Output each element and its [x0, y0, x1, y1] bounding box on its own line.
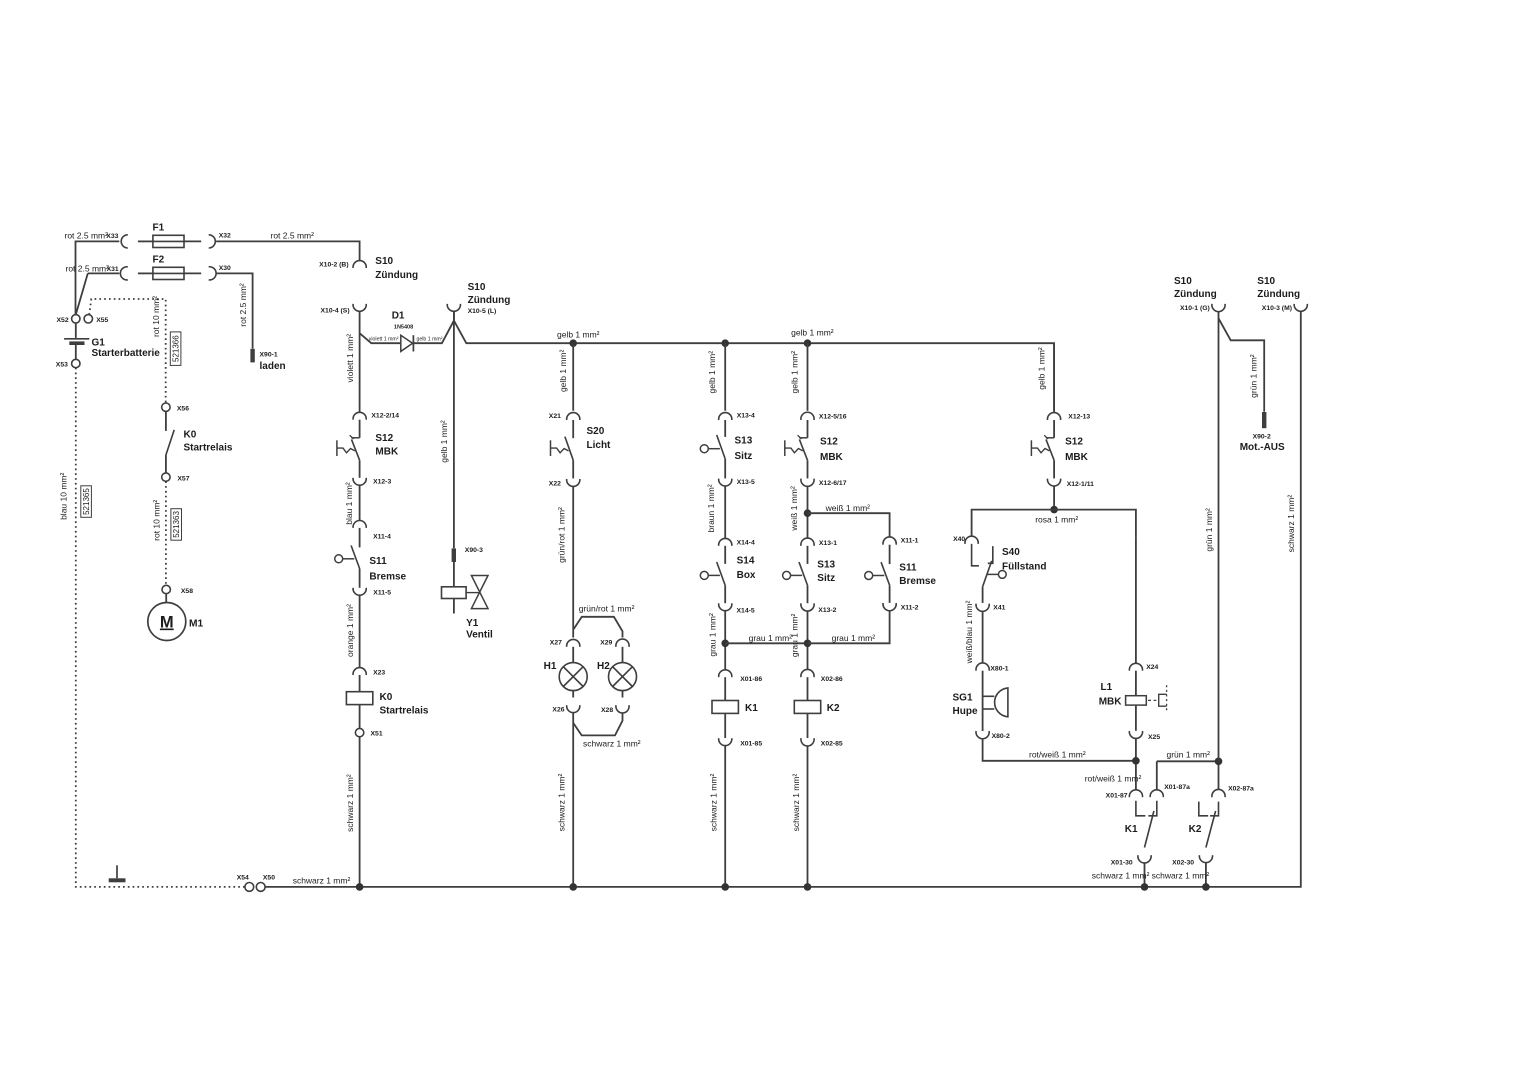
- svg-text:Y1: Y1: [466, 618, 479, 629]
- svg-text:Bremse: Bremse: [899, 576, 936, 587]
- svg-text:X11-5: X11-5: [373, 590, 391, 597]
- svg-text:X23: X23: [373, 670, 385, 677]
- svg-text:K2: K2: [1189, 824, 1202, 835]
- connector X31: [120, 267, 127, 280]
- connector X33: [121, 235, 128, 248]
- junction junction grau column F: [721, 640, 729, 648]
- switch S11 Bremse (column C): [335, 546, 360, 569]
- connector X01-87: [1129, 790, 1142, 797]
- wire to X27: [572, 630, 574, 638]
- svg-text:X10-4 (S): X10-4 (S): [321, 308, 350, 315]
- svg-text:schwarz 1 mm²: schwarz 1 mm²: [1092, 871, 1150, 881]
- svg-text:X25: X25: [1148, 734, 1160, 741]
- svg-text:1N5408: 1N5408: [394, 325, 413, 331]
- svg-text:X27: X27: [550, 640, 562, 647]
- wire K2 coil to X02-85: [807, 713, 809, 738]
- junction junction gelb bus / column F: [721, 339, 729, 347]
- connector X10-1 (G): [1212, 304, 1225, 312]
- junction junction column C / bus: [356, 883, 364, 891]
- wire rot 2.5mm2 from X52 up to F1 row: [76, 241, 120, 314]
- svg-text:X13-1: X13-1: [819, 540, 837, 547]
- svg-text:X13-5: X13-5: [737, 479, 755, 486]
- junction junction gelb bus / column G: [804, 339, 812, 347]
- svg-text:X80-2: X80-2: [992, 733, 1010, 740]
- connector X10-3 (M): [1294, 304, 1307, 311]
- svg-text:Starterbatterie: Starterbatterie: [92, 348, 161, 359]
- wire X12-2/14 to S12: [359, 420, 361, 438]
- wire number 521365: [81, 486, 92, 518]
- wire S20 to X22: [572, 460, 574, 478]
- svg-text:rot 10 mm²: rot 10 mm²: [151, 500, 161, 541]
- svg-text:Licht: Licht: [587, 440, 612, 451]
- svg-text:X12-3: X12-3: [373, 478, 391, 485]
- svg-text:Mot.-AUS: Mot.-AUS: [1240, 442, 1285, 453]
- wire X13-4 to S13: [724, 420, 726, 437]
- terminal X52: [72, 315, 80, 323]
- wire schwarz return X28 to column E: [573, 713, 622, 736]
- connector X30: [209, 267, 216, 280]
- connector X11-4: [353, 520, 366, 527]
- svg-text:K2: K2: [827, 703, 840, 714]
- fuse F1: [153, 235, 184, 247]
- svg-text:MBK: MBK: [375, 446, 399, 457]
- svg-text:X11-2: X11-2: [901, 605, 919, 612]
- connector X80-1: [976, 663, 989, 671]
- svg-text:gelb 1 mm²: gelb 1 mm²: [790, 351, 800, 394]
- wire X01-86 to K1 coil: [724, 677, 726, 700]
- wire gelb from D1 to S10 X10-5(L): [413, 312, 454, 344]
- connector X13-5: [719, 479, 732, 486]
- wire rot 2.5mm2 X30 to X90-1 laden: [216, 273, 253, 348]
- battery G1: [64, 339, 89, 343]
- svg-text:X58: X58: [181, 588, 193, 595]
- wire S40 to X41: [982, 587, 984, 603]
- connector X01-85: [719, 738, 732, 745]
- switch S12 MBK (column G): [785, 435, 808, 460]
- svg-text:X14-5: X14-5: [737, 608, 755, 615]
- wire gruen branch to X90-2 Mot.-AUS: [1219, 318, 1265, 412]
- svg-text:X33: X33: [106, 233, 118, 240]
- wire X56 to K0 switch: [165, 411, 167, 431]
- svg-text:X41: X41: [993, 605, 1005, 612]
- wire blau 1mm2 X12-3 to X11-4: [359, 485, 361, 520]
- svg-text:X12-13: X12-13: [1068, 413, 1090, 420]
- wire gelb 1mm2 to X90-3: [453, 311, 455, 548]
- connector X12-1/11: [1047, 479, 1060, 486]
- svg-text:gelb 1 mm²: gelb 1 mm²: [1036, 347, 1046, 390]
- svg-text:S10: S10: [468, 282, 486, 293]
- junction junction grau column G: [804, 640, 812, 648]
- switch S13 Sitz (column F): [700, 435, 725, 459]
- wire X58 to motor M1: [165, 594, 167, 603]
- svg-text:S40: S40: [1002, 547, 1020, 558]
- connector X14-5: [719, 603, 732, 610]
- svg-text:Zündung: Zündung: [1174, 289, 1217, 300]
- svg-text:Zündung: Zündung: [468, 295, 511, 306]
- svg-text:X55: X55: [96, 317, 108, 324]
- svg-text:schwarz 1 mm²: schwarz 1 mm²: [345, 774, 355, 832]
- svg-text:MBK: MBK: [1099, 696, 1123, 707]
- svg-text:K0: K0: [380, 692, 393, 703]
- svg-text:X50: X50: [263, 875, 275, 882]
- junction junction K1 / bus: [1141, 883, 1149, 891]
- svg-text:X32: X32: [219, 233, 231, 240]
- svg-text:grün/rot 1 mm²: grün/rot 1 mm²: [579, 603, 635, 613]
- svg-text:X80-1: X80-1: [990, 666, 1008, 673]
- wire X13-1 to S13: [807, 546, 809, 564]
- svg-text:grün 1 mm²: grün 1 mm²: [1204, 508, 1214, 552]
- wire schwarz 1mm2 K1 to bus: [724, 746, 726, 887]
- wire gelb 1mm2 bus to X21: [572, 343, 574, 411]
- terminal X50: [256, 883, 265, 892]
- terminal X55: [84, 315, 92, 323]
- svg-text:blau 1 mm²: blau 1 mm²: [344, 482, 354, 525]
- switch S11 Bremse (column H): [865, 562, 890, 585]
- junction junction rot/weiss: [1132, 757, 1140, 765]
- svg-text:laden: laden: [260, 361, 286, 372]
- wire X12-13 to S12: [1053, 420, 1055, 438]
- svg-text:K1: K1: [1125, 824, 1138, 835]
- svg-text:gelb 1 mm²: gelb 1 mm²: [558, 349, 568, 392]
- wire F2 right lead: [184, 272, 201, 274]
- svg-text:schwarz 1 mm²: schwarz 1 mm²: [293, 875, 351, 885]
- connector X10-2 (B): [353, 261, 366, 268]
- wire L1 to X25: [1135, 705, 1137, 731]
- svg-text:S20: S20: [587, 426, 605, 437]
- switch S20 Licht: [551, 437, 574, 461]
- svg-text:orange 1 mm²: orange 1 mm²: [345, 604, 355, 657]
- svg-text:X21: X21: [549, 413, 561, 420]
- lamp H1: [559, 663, 587, 691]
- wire gelb 1mm2 bus to X13-4: [724, 343, 726, 411]
- connector X27: [567, 639, 580, 646]
- wire weiss 1mm2 G to H: [808, 513, 890, 537]
- svg-text:schwarz 1 mm²: schwarz 1 mm²: [556, 774, 566, 832]
- wire K1 coil to X01-85: [724, 713, 726, 738]
- junction junction weiss column G: [804, 509, 812, 517]
- relay contact K1: [1136, 801, 1157, 848]
- connector X01-86: [719, 670, 732, 677]
- svg-text:X02-87a: X02-87a: [1228, 786, 1254, 793]
- svg-text:X02-85: X02-85: [821, 740, 843, 747]
- wire X11-1 to S11: [889, 545, 891, 564]
- svg-text:grau 1 mm²: grau 1 mm²: [708, 613, 718, 657]
- wire lamp H2 to X28: [622, 691, 624, 698]
- wire gruen junction to X02-87a: [1218, 761, 1220, 790]
- connector X23: [353, 668, 366, 675]
- connector X24: [1129, 663, 1142, 670]
- svg-text:521366: 521366: [171, 335, 180, 362]
- wire X90-3 to Y1: [453, 562, 455, 587]
- terminal X56: [162, 403, 170, 411]
- wire grau 1mm2 X13-2 to junction: [807, 611, 809, 670]
- horn SG1 Hupe: [983, 688, 1008, 717]
- svg-text:grün/rot 1 mm²: grün/rot 1 mm²: [556, 507, 566, 563]
- svg-text:X22: X22: [549, 480, 561, 487]
- connector X11-5: [353, 588, 366, 595]
- svg-text:X11-1: X11-1: [901, 538, 919, 545]
- svg-text:S12: S12: [820, 437, 838, 448]
- wire weiss/blau 1mm2 X41 to X80-1: [982, 611, 984, 663]
- wire gruen to X01-87a: [1156, 761, 1158, 790]
- diode D1 1N5408: [401, 335, 414, 351]
- svg-text:X11-4: X11-4: [373, 534, 391, 541]
- svg-text:X12-2/14: X12-2/14: [371, 412, 399, 419]
- wire violett from X10-4(S) down: [359, 311, 361, 412]
- wire X11-4 to S11: [359, 528, 361, 548]
- wire S13 to X13-2: [807, 585, 809, 603]
- wire X52 to battery: [75, 323, 77, 338]
- svg-text:X30: X30: [219, 265, 231, 272]
- connector X11-2: [883, 603, 896, 611]
- junction junction column E / bus: [569, 883, 577, 891]
- wire gruen/rot 1mm2 X22 down: [572, 486, 574, 629]
- connector X02-87a: [1212, 789, 1225, 797]
- svg-text:X01-85: X01-85: [740, 740, 762, 747]
- svg-text:Zündung: Zündung: [1257, 289, 1300, 300]
- svg-text:braun 1 mm²: braun 1 mm²: [706, 484, 716, 532]
- wire orange 1mm2 X11-5 to X23: [359, 595, 361, 667]
- wire grau 1mm2 X11-2 to junction G: [808, 610, 890, 643]
- connector X12-6/17: [801, 479, 814, 487]
- svg-text:rot 2.5 mm²: rot 2.5 mm²: [66, 263, 110, 273]
- wire X27 to lamp H1: [572, 647, 574, 663]
- terminal X54: [245, 883, 254, 892]
- terminal X58: [162, 585, 170, 593]
- svg-text:K0: K0: [184, 429, 197, 440]
- connector X01-30: [1138, 855, 1151, 863]
- svg-text:D1: D1: [392, 310, 405, 321]
- junction junction K2 / bus: [1202, 883, 1210, 891]
- svg-text:X02-30: X02-30: [1172, 859, 1194, 866]
- wire F2 left lead: [138, 272, 154, 274]
- wire rot 2.5mm2 from X52 to F2 row: [76, 273, 119, 314]
- wire rot 10mm2 dashed X57 to X58: [165, 481, 167, 585]
- connector X25: [1129, 731, 1142, 738]
- fuse F2: [153, 267, 184, 279]
- terminal X57: [162, 473, 170, 481]
- connector X12-5/16: [801, 412, 814, 420]
- svg-text:S13: S13: [817, 559, 835, 570]
- svg-text:violett 1 mm²: violett 1 mm²: [369, 336, 399, 342]
- connector X40: [965, 536, 978, 544]
- terminal bar X90-3: [452, 548, 456, 562]
- wire battery to X53: [75, 345, 77, 359]
- svg-text:MBK: MBK: [820, 452, 844, 463]
- wire gruen 1mm2 horizontal: [1157, 760, 1219, 762]
- svg-text:rot 10 mm²: rot 10 mm²: [151, 296, 161, 337]
- connector X21: [567, 413, 580, 420]
- wire X02-86 to K2 coil: [807, 677, 809, 700]
- svg-text:grau 1 mm²: grau 1 mm²: [749, 633, 793, 643]
- connector X13-1: [801, 538, 814, 546]
- svg-text:H2: H2: [597, 661, 610, 672]
- connector X29: [616, 639, 629, 647]
- svg-text:Startrelais: Startrelais: [380, 706, 429, 717]
- connector X01-87a: [1150, 790, 1163, 797]
- svg-text:X10-5 (L): X10-5 (L): [468, 308, 497, 315]
- svg-text:X12-6/17: X12-6/17: [819, 480, 847, 487]
- svg-text:Sitz: Sitz: [735, 451, 753, 462]
- svg-text:S12: S12: [1065, 437, 1083, 448]
- wire S14 to X14-5: [724, 585, 726, 603]
- svg-text:X01-87: X01-87: [1106, 793, 1128, 800]
- connector X28: [616, 705, 629, 713]
- connector X02-30: [1199, 855, 1212, 862]
- svg-text:schwarz 1 mm²: schwarz 1 mm²: [1152, 871, 1210, 881]
- switch S14 Box: [700, 562, 725, 585]
- svg-text:Box: Box: [737, 570, 756, 581]
- svg-text:Füllstand: Füllstand: [1002, 562, 1046, 573]
- switch S12 MBK (column I): [1031, 435, 1054, 460]
- svg-text:X26: X26: [552, 706, 564, 713]
- svg-text:S11: S11: [899, 562, 917, 573]
- svg-text:X10-2 (B): X10-2 (B): [319, 262, 348, 269]
- svg-text:X54: X54: [237, 875, 249, 882]
- svg-text:521365: 521365: [82, 488, 91, 515]
- wire schwarz 1mm2 X26 to bus: [572, 713, 574, 887]
- junction junction rosa: [1050, 506, 1058, 514]
- svg-text:grau 1 mm²: grau 1 mm²: [789, 614, 799, 658]
- terminal bar X90-1: [250, 349, 254, 363]
- junction junction column F / bus: [721, 883, 729, 891]
- svg-text:X57: X57: [177, 475, 189, 482]
- connector X13-4: [719, 413, 732, 420]
- svg-text:X40: X40: [953, 536, 965, 543]
- svg-text:X51: X51: [371, 731, 383, 738]
- svg-text:X90-1: X90-1: [260, 352, 278, 359]
- svg-text:X01-30: X01-30: [1111, 859, 1133, 866]
- wire blau 10mm2 dotted X53 down and to X54: [76, 368, 245, 887]
- wire braun 1mm2 X13-5 to X14-4: [724, 486, 726, 538]
- svg-text:S10: S10: [1174, 276, 1192, 287]
- svg-text:rot 2.5 mm²: rot 2.5 mm²: [238, 283, 248, 327]
- terminal X53: [72, 359, 80, 367]
- svg-text:S14: S14: [737, 555, 755, 566]
- svg-text:schwarz 1 mm²: schwarz 1 mm²: [791, 774, 801, 832]
- svg-text:Zündung: Zündung: [375, 270, 418, 281]
- svg-text:521363: 521363: [172, 511, 181, 538]
- svg-text:rot/weiß 1 mm²: rot/weiß 1 mm²: [1085, 774, 1142, 784]
- wire gelb 1mm2 bus corner to X12-13: [1053, 343, 1055, 411]
- wire S12 to X12-6/17: [807, 460, 809, 478]
- terminal X51: [355, 728, 363, 736]
- connector X10-4 (S): [353, 304, 366, 311]
- svg-text:F2: F2: [153, 255, 165, 266]
- wire branch to diode D1: [360, 333, 401, 343]
- connector X14-4: [719, 538, 732, 545]
- wire K0 to X57: [165, 455, 167, 473]
- svg-text:X29: X29: [600, 640, 612, 647]
- wire schwarz 1mm2 K2 to bus: [807, 746, 809, 887]
- wire lamp H1 to X26: [572, 691, 574, 698]
- connector X02-85: [801, 738, 814, 746]
- svg-text:rot 2.5 mm²: rot 2.5 mm²: [65, 231, 109, 241]
- svg-text:X12-5/16: X12-5/16: [819, 413, 847, 420]
- svg-text:M1: M1: [189, 618, 203, 629]
- svg-text:schwarz 1 mm²: schwarz 1 mm²: [1286, 495, 1296, 553]
- svg-text:rot/weiß 1 mm²: rot/weiß 1 mm²: [1029, 749, 1086, 759]
- svg-text:X56: X56: [177, 406, 189, 413]
- svg-text:S13: S13: [735, 435, 753, 446]
- connector X80-2: [976, 731, 989, 739]
- junction junction gruen: [1215, 758, 1223, 766]
- svg-text:S12: S12: [375, 433, 393, 444]
- svg-text:Ventil: Ventil: [466, 630, 493, 641]
- svg-text:grün 1 mm²: grün 1 mm²: [1249, 354, 1259, 398]
- wire F1 left lead: [138, 240, 154, 242]
- svg-text:grau 1 mm²: grau 1 mm²: [832, 633, 876, 643]
- svg-text:rot 2.5 mm²: rot 2.5 mm²: [271, 231, 315, 241]
- connector X22: [567, 479, 580, 486]
- svg-text:SG1: SG1: [953, 692, 973, 703]
- wire X25 to rot/weiss junction: [1135, 738, 1137, 789]
- wire rot/weiss 1mm2 X80-2 to junction: [983, 738, 1136, 760]
- relay coil K1: [712, 701, 738, 714]
- wire X80-1 to horn: [982, 671, 984, 731]
- relay coil K0 Startrelais: [346, 692, 372, 705]
- wire gruen/rot branch to X29: [573, 617, 622, 638]
- wire schwarz X02-30 to bus: [1205, 863, 1207, 887]
- svg-text:schwarz 1 mm²: schwarz 1 mm²: [709, 774, 719, 832]
- ground symbol: [109, 865, 126, 882]
- relay contact K0 Startrelais: [166, 430, 174, 455]
- junction junction gelb bus / column E: [569, 339, 577, 347]
- svg-text:X01-87a: X01-87a: [1164, 784, 1190, 791]
- wire X21 to S20: [572, 420, 574, 438]
- wire gelb 1mm2 bus to X12-5/16: [807, 343, 809, 411]
- svg-text:schwarz 1 mm²: schwarz 1 mm²: [583, 738, 641, 748]
- wire S12 to X12-3: [359, 460, 361, 478]
- connector X12-2/14: [353, 412, 366, 419]
- svg-text:weiß 1 mm²: weiß 1 mm²: [825, 503, 871, 513]
- wire X12-5/16 to S12: [807, 420, 809, 438]
- wire gruen 1mm2 X10-1 down to junction: [1218, 311, 1220, 761]
- svg-text:M: M: [160, 614, 174, 632]
- svg-text:X52: X52: [57, 317, 69, 324]
- svg-text:K1: K1: [745, 703, 758, 714]
- svg-text:gelb 1 mm²: gelb 1 mm²: [791, 327, 834, 337]
- svg-text:S11: S11: [369, 556, 387, 567]
- wire X23 to K0 coil: [359, 675, 361, 692]
- svg-text:X28: X28: [601, 707, 613, 714]
- svg-text:S10: S10: [375, 256, 393, 267]
- svg-text:F1: F1: [153, 223, 165, 234]
- wire schwarz 1mm2 ground bus: [265, 312, 1301, 887]
- switch S12 MBK (column C): [337, 435, 360, 460]
- svg-text:X90-2: X90-2: [1253, 433, 1271, 440]
- svg-text:violett 1 mm²: violett 1 mm²: [345, 334, 355, 383]
- svg-text:X12-1/11: X12-1/11: [1067, 481, 1094, 488]
- wire weiss 1mm2 X12-6/17 down: [807, 486, 809, 538]
- svg-text:grün 1 mm²: grün 1 mm²: [1167, 749, 1211, 759]
- wire X29 to lamp H2: [622, 647, 624, 663]
- wire grau 1mm2 X14-5 to junction: [724, 611, 726, 670]
- svg-text:S10: S10: [1257, 276, 1275, 287]
- svg-text:X10-3 (M): X10-3 (M): [1262, 305, 1292, 312]
- connector X12-13: [1047, 413, 1060, 420]
- svg-text:H1: H1: [544, 661, 557, 672]
- wire schwarz X01-30 to bus: [1144, 863, 1146, 887]
- junction junction column G / bus: [804, 883, 812, 891]
- svg-text:weiß/blau 1 mm²: weiß/blau 1 mm²: [964, 600, 974, 664]
- connector X10-5 (L): [447, 304, 460, 311]
- svg-text:X53: X53: [56, 362, 68, 369]
- svg-text:gelb 1 mm²: gelb 1 mm²: [439, 420, 449, 463]
- wire F1 right lead: [184, 240, 201, 242]
- svg-text:X24: X24: [1146, 664, 1158, 671]
- wire schwarz 1mm2 X51 to bus: [359, 737, 361, 887]
